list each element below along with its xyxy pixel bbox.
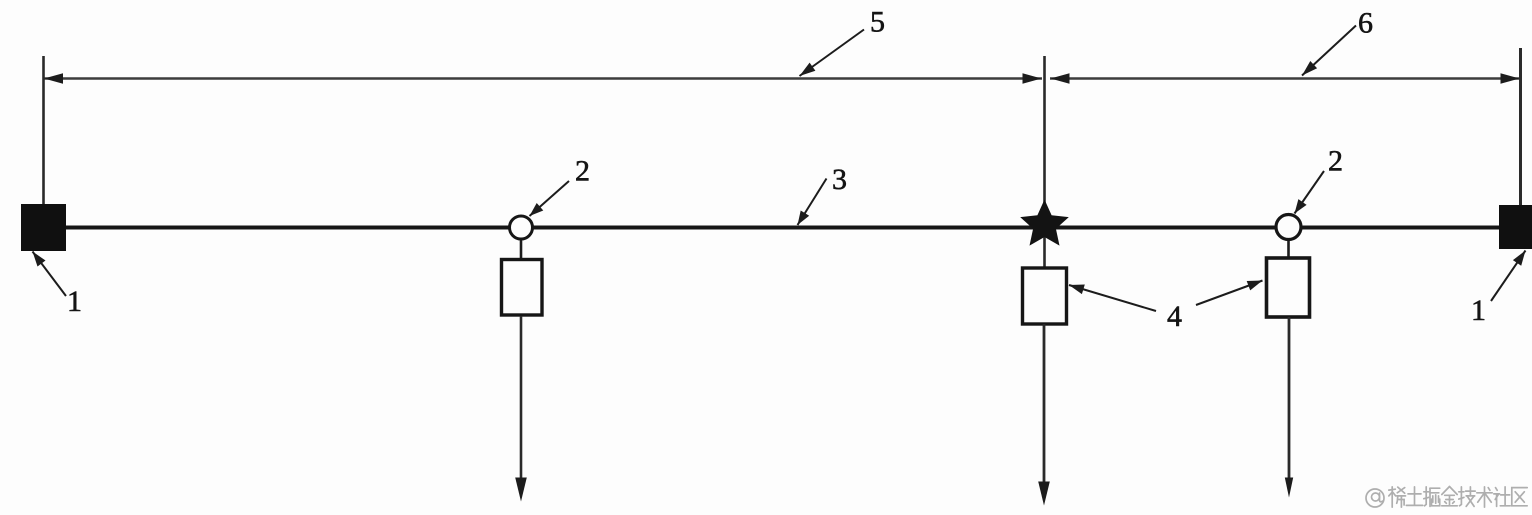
svg-text:3: 3 <box>832 163 847 196</box>
svg-text:5: 5 <box>870 6 885 39</box>
svg-text:6: 6 <box>1358 7 1373 40</box>
svg-text:2: 2 <box>575 155 590 188</box>
svg-text:1: 1 <box>67 285 82 318</box>
svg-text:4: 4 <box>1167 300 1182 333</box>
svg-text:2: 2 <box>1328 145 1343 178</box>
svg-text:1: 1 <box>1471 294 1486 327</box>
